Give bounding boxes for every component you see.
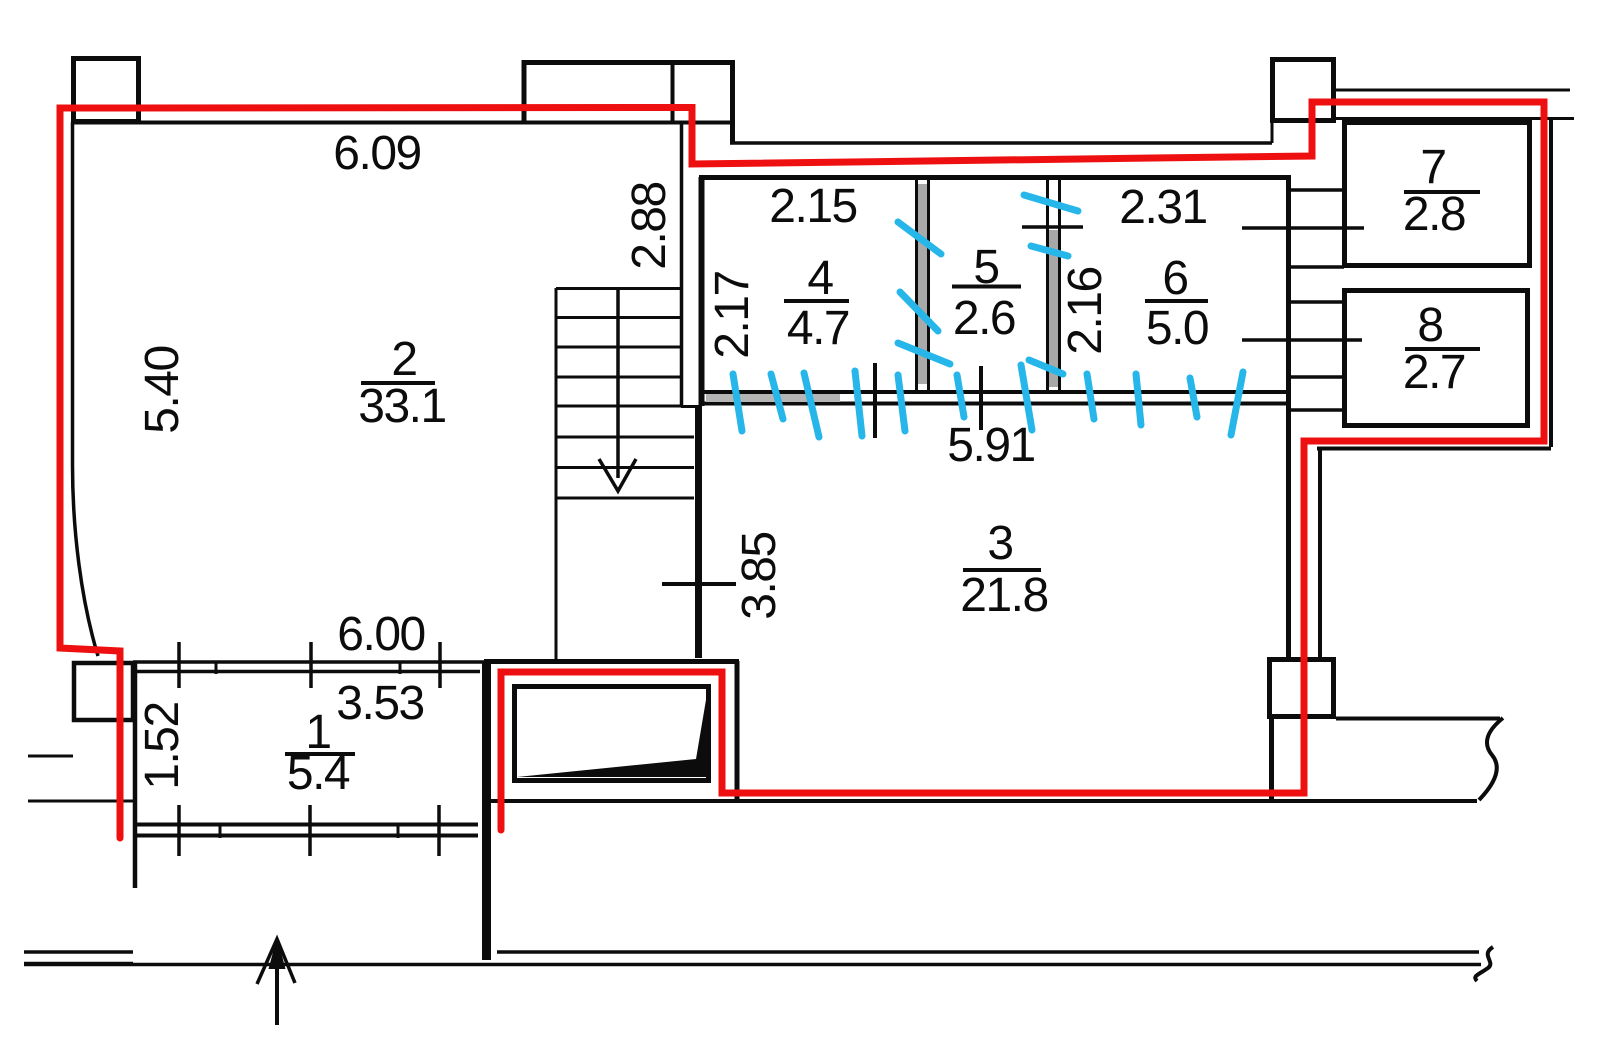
demolition stroke P1 partition 4/5 <box>898 222 941 254</box>
wall connector at pier right <box>1271 120 1274 143</box>
tick line room 6/8 <box>1242 338 1362 342</box>
pier bottom-left <box>74 663 133 720</box>
wall left of room 4 <box>699 177 705 406</box>
pier lower right <box>1270 660 1334 717</box>
entrance arrow head <box>257 939 295 984</box>
ramp enclosure right wall <box>735 661 740 801</box>
pier top-left <box>74 59 139 122</box>
staircase arrow stem <box>616 288 620 478</box>
wall secondary right of room 3 <box>1318 449 1322 657</box>
entrance bottom line long <box>24 963 1481 967</box>
room 1 top dimension ticks <box>179 642 440 688</box>
wall bump divider <box>671 60 675 122</box>
demolition tick T6 <box>957 375 964 417</box>
svg-text:2.88: 2.88 <box>623 182 676 269</box>
demolition tick T1 <box>733 374 742 431</box>
demolition tick T8 <box>1087 374 1094 419</box>
svg-text:5.40: 5.40 <box>136 346 189 433</box>
demolition stroke P4 partition 5/6 <box>1024 195 1078 211</box>
room 6 label <box>1145 252 1208 355</box>
svg-text:6: 6 <box>1162 252 1187 305</box>
svg-text:5.91: 5.91 <box>947 419 1034 472</box>
demolition tick T9 <box>1136 374 1141 425</box>
svg-text:1.52: 1.52 <box>136 702 189 789</box>
ramp inner box <box>515 687 709 781</box>
ramp wedge fill <box>517 688 708 777</box>
dimension tick on partition 5/6 <box>1022 225 1083 229</box>
svg-text:2.7: 2.7 <box>1403 346 1465 399</box>
room 7 label <box>1403 141 1480 241</box>
wall below room 8 <box>1317 447 1551 451</box>
svg-text:5.4: 5.4 <box>287 747 350 800</box>
entrance bottom double line left <box>24 952 133 964</box>
red apartment boundary polyline <box>60 102 1544 838</box>
svg-text:7: 7 <box>1420 141 1445 194</box>
partition wall rooms 4/5 <box>917 180 929 391</box>
svg-text:2: 2 <box>391 333 416 386</box>
svg-text:5.0: 5.0 <box>1146 302 1208 355</box>
staircase left wall <box>555 288 558 661</box>
dimension tick 5.91 left <box>873 363 877 438</box>
wall thin upper right 2 <box>1333 117 1574 120</box>
staircase steps upper <box>556 289 681 407</box>
staircase jog <box>681 405 702 408</box>
svg-text:2.15: 2.15 <box>769 180 856 233</box>
room 1 label <box>285 706 355 800</box>
demolition tick T7 <box>1021 365 1032 430</box>
svg-text:4.7: 4.7 <box>787 302 849 355</box>
entrance arrow head fill <box>269 937 286 969</box>
wall top of room 2 <box>71 121 733 125</box>
demolition tick T11 <box>1231 372 1243 435</box>
demolition stroke P5 partition 5/6 <box>1031 246 1068 256</box>
svg-text:4: 4 <box>807 252 833 305</box>
room 1 bottom wall dividers <box>220 823 398 838</box>
wall right outer <box>1549 120 1553 447</box>
wall bottom of rooms 4-5-6 lower line <box>702 402 1289 406</box>
svg-text:3: 3 <box>987 517 1012 570</box>
wall below pier <box>1269 719 1274 801</box>
gray fill in bottom wall <box>706 394 840 402</box>
svg-text:2.8: 2.8 <box>1403 188 1465 241</box>
room 5 label <box>952 241 1021 345</box>
svg-text:21.8: 21.8 <box>960 569 1047 622</box>
room 1 bottom dimension ticks <box>179 805 439 856</box>
wall jog left 1 <box>28 755 73 758</box>
demolition stroke P6 partition 5/6 <box>1029 360 1063 374</box>
wall right of room 2 (stair shaft boundary) <box>680 122 684 406</box>
room 3 label <box>960 517 1047 622</box>
demolition tick T5 <box>898 375 905 431</box>
room 1 top wall <box>133 662 486 672</box>
room 1 left wall <box>133 661 138 888</box>
wall bottom long line room 3 <box>488 799 1477 803</box>
wall bump over top (balcony recess) <box>524 63 733 144</box>
wall thin upper right 1 <box>1333 89 1570 92</box>
svg-text:8: 8 <box>1417 299 1442 352</box>
svg-text:2.17: 2.17 <box>706 271 759 358</box>
tick line room 6/7 <box>1242 226 1364 230</box>
wall thick right of room 1 <box>482 661 491 960</box>
staircase arrow head <box>599 459 636 491</box>
wall bottom right horizontal <box>1336 717 1500 721</box>
room 4 label <box>784 252 849 355</box>
break squiggle bottom right <box>1475 947 1493 981</box>
svg-text:3.85: 3.85 <box>733 532 786 619</box>
entrance bottom line right upper <box>497 950 1479 954</box>
demolition tick T4 <box>855 371 862 436</box>
svg-text:6.09: 6.09 <box>333 127 420 180</box>
demolition tick T10 <box>1190 378 1197 417</box>
partition wall rooms 5/6 <box>1048 180 1060 390</box>
demolition stroke P2 partition 4/5 <box>900 292 938 331</box>
svg-text:33.1: 33.1 <box>358 380 445 433</box>
svg-text:2.16: 2.16 <box>1059 267 1112 354</box>
staircase thick wall right <box>695 406 702 658</box>
ramp enclosure top wall <box>484 659 739 664</box>
room 1 bottom wall <box>136 825 478 836</box>
wall right of room 3 / room 6 <box>1286 178 1291 657</box>
room 1 top wall dividers <box>216 661 400 674</box>
entrance arrow stem <box>275 941 279 1025</box>
svg-text:2.31: 2.31 <box>1119 181 1206 234</box>
break line S-curve right <box>1479 718 1503 800</box>
room 8 box <box>1345 291 1528 426</box>
demolition tick T3 <box>804 373 819 437</box>
wall jog left 2 <box>28 800 133 803</box>
svg-text:3.53: 3.53 <box>336 677 423 730</box>
staircase steps lower <box>556 437 694 498</box>
connector lines rooms 6-7-8 <box>1291 190 1344 410</box>
dimension tick 3.85 <box>662 582 736 586</box>
wall top recessed section <box>730 141 1272 145</box>
room 7 box <box>1345 123 1530 266</box>
demolition tick T2 <box>771 374 783 419</box>
wall left of room 2 <box>73 122 99 656</box>
dimension tick 5.91 right <box>979 366 983 430</box>
demolition stroke P3 partition 4/5 <box>898 343 950 364</box>
wall bottom of rooms 4-5-6 upper line <box>702 390 1289 394</box>
pier top-right <box>1273 60 1334 121</box>
room 8 label <box>1403 299 1480 399</box>
wall top of rooms 4-5-6 <box>699 175 1291 180</box>
room 2 label <box>358 333 445 433</box>
svg-text:6.00: 6.00 <box>337 608 424 661</box>
svg-text:2.6: 2.6 <box>953 292 1015 345</box>
